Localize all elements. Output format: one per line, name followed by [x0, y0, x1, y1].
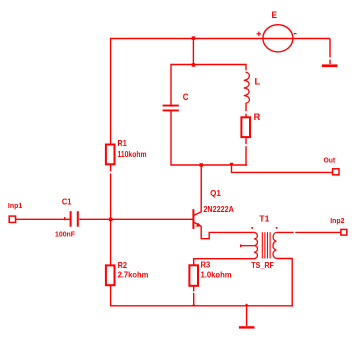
- primary winding: [254, 232, 258, 258]
- wire: pin below R to tank bottom: [245, 137, 247, 144]
- primary center tap stub: [240, 245, 254, 247]
- wire: pin between L and R: [245, 105, 247, 112]
- wire: C1 to base node: [79, 218, 110, 220]
- wire: top supply rail: [111, 38, 330, 40]
- port Inp2: [341, 229, 347, 235]
- svg-text:R1: R1: [118, 139, 128, 148]
- wire: transformer secondary bottom to ground rail: [277, 259, 293, 306]
- svg-text:Inp1: Inp1: [8, 201, 22, 210]
- junction node: R3 / bottom rail: [191, 304, 196, 306]
- svg-text:C1: C1: [62, 198, 72, 207]
- svg-text:2.7kohm: 2.7kohm: [118, 271, 149, 280]
- wire: tank left edge below C: [170, 111, 172, 166]
- wire: transformer secondary top to Inp2: [277, 231, 294, 233]
- port Inp1: [9, 216, 15, 222]
- wire: E right lead down to ground: [329, 39, 331, 58]
- resistor R2 2.7kohm: [106, 265, 115, 285]
- C1 pin-end tick: [64, 217, 65, 220]
- junction node: tank bottom / collector: [200, 163, 204, 167]
- wire: emitter jog to transformer primary: [201, 226, 254, 239]
- ground (bottom center): [239, 326, 255, 328]
- svg-text:Out: Out: [324, 156, 336, 165]
- resistor R3 1.0kohm: [189, 265, 198, 286]
- wire: out tap jog: [232, 165, 333, 172]
- transistor Q1 2N2222A: [193, 209, 201, 229]
- wire: R3 bottom pin: [193, 286, 195, 291]
- collector diagonal: [194, 212, 202, 216]
- emitter diagonal: [194, 222, 202, 226]
- core lines: [261, 232, 263, 258]
- junction node: ground stem / bottom rail: [244, 303, 249, 306]
- resistor R1 110kohm: [106, 145, 115, 165]
- inductor L (tank): [244, 72, 250, 104]
- svg-text:1.0kohm: 1.0kohm: [201, 271, 232, 280]
- transformer T1 TS_RF: [240, 232, 276, 259]
- svg-text:100nF: 100nF: [55, 229, 75, 238]
- wire: tank top edge: [171, 64, 246, 66]
- port Out: [333, 169, 339, 175]
- E plus sign: [257, 32, 262, 37]
- svg-text:Inp2: Inp2: [330, 216, 344, 225]
- capacitor C (tank) plates: [163, 105, 179, 107]
- center tap stub end tick: [240, 244, 241, 247]
- svg-text:110kohm: 110kohm: [118, 150, 147, 159]
- capacitor C1 100nF plates: [70, 211, 72, 227]
- junction node: tank top / drop: [192, 63, 196, 66]
- wire: R2 bottom to bottom rail: [110, 285, 112, 307]
- emitter arrow: [196, 223, 202, 227]
- junction node: base / C1 / R1-R2 rail: [109, 218, 113, 222]
- svg-text:C: C: [183, 92, 189, 102]
- wire: R3 top to transformer primary bottom: [194, 259, 254, 266]
- junction node: top rail / tank drop: [192, 36, 196, 40]
- svg-text:Q1: Q1: [210, 189, 221, 198]
- transformer pin end dots: [251, 227, 253, 229]
- wire: base wire from node to Q1: [111, 218, 193, 220]
- svg-text:TS_RF: TS_RF: [251, 261, 274, 270]
- svg-text:R: R: [254, 112, 261, 122]
- base bar: [192, 209, 194, 229]
- svg-text:E: E: [272, 10, 278, 20]
- wire: tank bottom edge: [171, 164, 247, 166]
- wire: left rail top (to R1): [110, 38, 112, 145]
- secondary winding: [273, 232, 277, 258]
- svg-text:2N2222A: 2N2222A: [203, 205, 234, 214]
- wire: tank left edge above C: [170, 64, 172, 105]
- svg-text:T1: T1: [259, 215, 270, 224]
- svg-text:L: L: [255, 76, 261, 86]
- wire: Inp1 to C1: [16, 218, 70, 220]
- wire: collector drop from tank bottom: [200, 165, 202, 212]
- wire: drop from top rail to tank top: [192, 39, 194, 65]
- wire: bottom ground rail: [111, 305, 293, 307]
- resistor R (tank): [241, 117, 250, 137]
- ground (right of E): [322, 64, 338, 67]
- wire: bottom ground stem: [246, 306, 248, 326]
- wire: R1 bottom to base node: [110, 164, 112, 172]
- E minus sign: [294, 33, 297, 35]
- junction node: tank bottom / out tap: [230, 163, 233, 166]
- voltage source E: [263, 25, 293, 52]
- svg-text:R2: R2: [118, 261, 128, 270]
- svg-text:R3: R3: [201, 261, 211, 270]
- wire: tank right edge pin above L: [245, 64, 247, 71]
